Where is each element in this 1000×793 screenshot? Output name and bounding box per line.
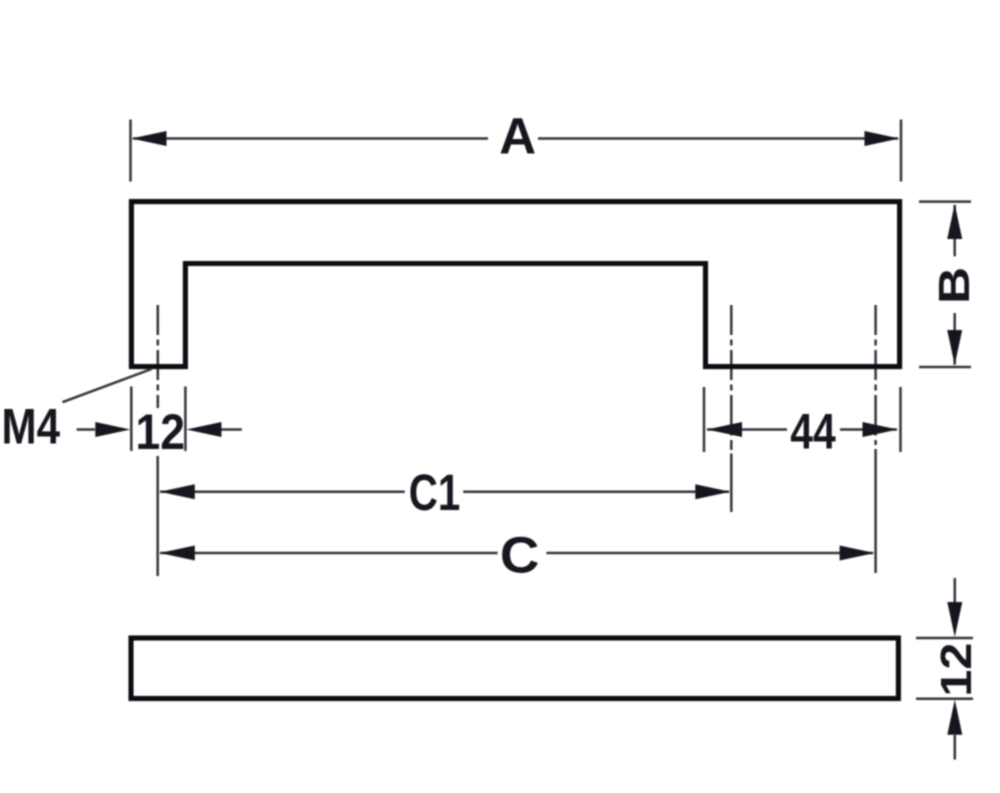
side view bar [131, 638, 898, 699]
svg-text:12: 12 [932, 643, 981, 697]
dimension 12 bottom upper arrow line [954, 578, 957, 602]
dimension 12 arrow line left [77, 428, 95, 431]
svg-text:A: A [499, 108, 536, 165]
dimension A arrowhead left [132, 131, 167, 146]
dimension 12 bottom arrowhead down [947, 602, 962, 637]
dimension C line right segment [546, 552, 873, 555]
M4 leader line [62, 369, 151, 402]
dimension 12 arrowhead right [186, 422, 221, 437]
dimension A extension line left [129, 120, 132, 182]
dimension C line left segment [160, 552, 498, 555]
dimension 44 arrowhead left [707, 422, 742, 437]
dimension 44 line right [840, 428, 897, 431]
dimension 12 bottom extension line bottom [916, 698, 973, 701]
centerline left leg [157, 305, 160, 408]
handle outline front view [131, 202, 899, 367]
C1 extension line right [730, 454, 733, 513]
svg-text:M4: M4 [2, 398, 61, 454]
dimension 12 arrowhead left [95, 422, 130, 437]
C1/C shared extension line left [156, 456, 159, 576]
dimension B line upper segment [953, 205, 956, 256]
dimension C1 arrowhead left [160, 484, 195, 499]
dimension C1 line left segment [160, 490, 405, 493]
dimension 44 line left [707, 428, 787, 431]
svg-text:12: 12 [136, 404, 186, 460]
dimension B extension line bottom [919, 366, 971, 369]
dimension 12 extension line right [184, 387, 187, 452]
dimension A line left segment [133, 137, 488, 140]
dimension C1 line right segment [463, 490, 729, 493]
dimension 12 bottom arrowhead up [947, 700, 962, 735]
dimension 44 extension line right [899, 387, 902, 452]
svg-text:B: B [930, 267, 979, 304]
C extension line right [874, 449, 877, 573]
centerline right leg left hole [730, 305, 733, 450]
dimension A arrowhead right [865, 131, 900, 146]
dimension B extension line top [919, 200, 971, 203]
svg-text:44: 44 [790, 404, 836, 460]
dimension 44 extension line left [703, 387, 706, 452]
centerline right leg right hole [874, 305, 877, 445]
dimension C arrowhead right [840, 546, 875, 561]
dimension A extension line right [900, 120, 903, 182]
dimension 44 arrowhead right [863, 422, 898, 437]
dimension B arrowhead down [947, 330, 962, 365]
dimension B line lower segment [953, 313, 956, 365]
dimension A line right segment [538, 137, 898, 140]
dimension C1 arrowhead right [695, 484, 730, 499]
dimension 12 bottom extension line top [916, 637, 973, 640]
svg-text:C: C [500, 526, 540, 583]
svg-text:C1: C1 [409, 464, 461, 521]
dimension 12 bottom lower arrow line [954, 735, 957, 760]
dimension C arrowhead left [160, 546, 195, 561]
dimension 12 extension line left [130, 387, 133, 452]
dimension B arrowhead up [947, 204, 962, 239]
dimension 12 arrow line right [221, 428, 242, 431]
